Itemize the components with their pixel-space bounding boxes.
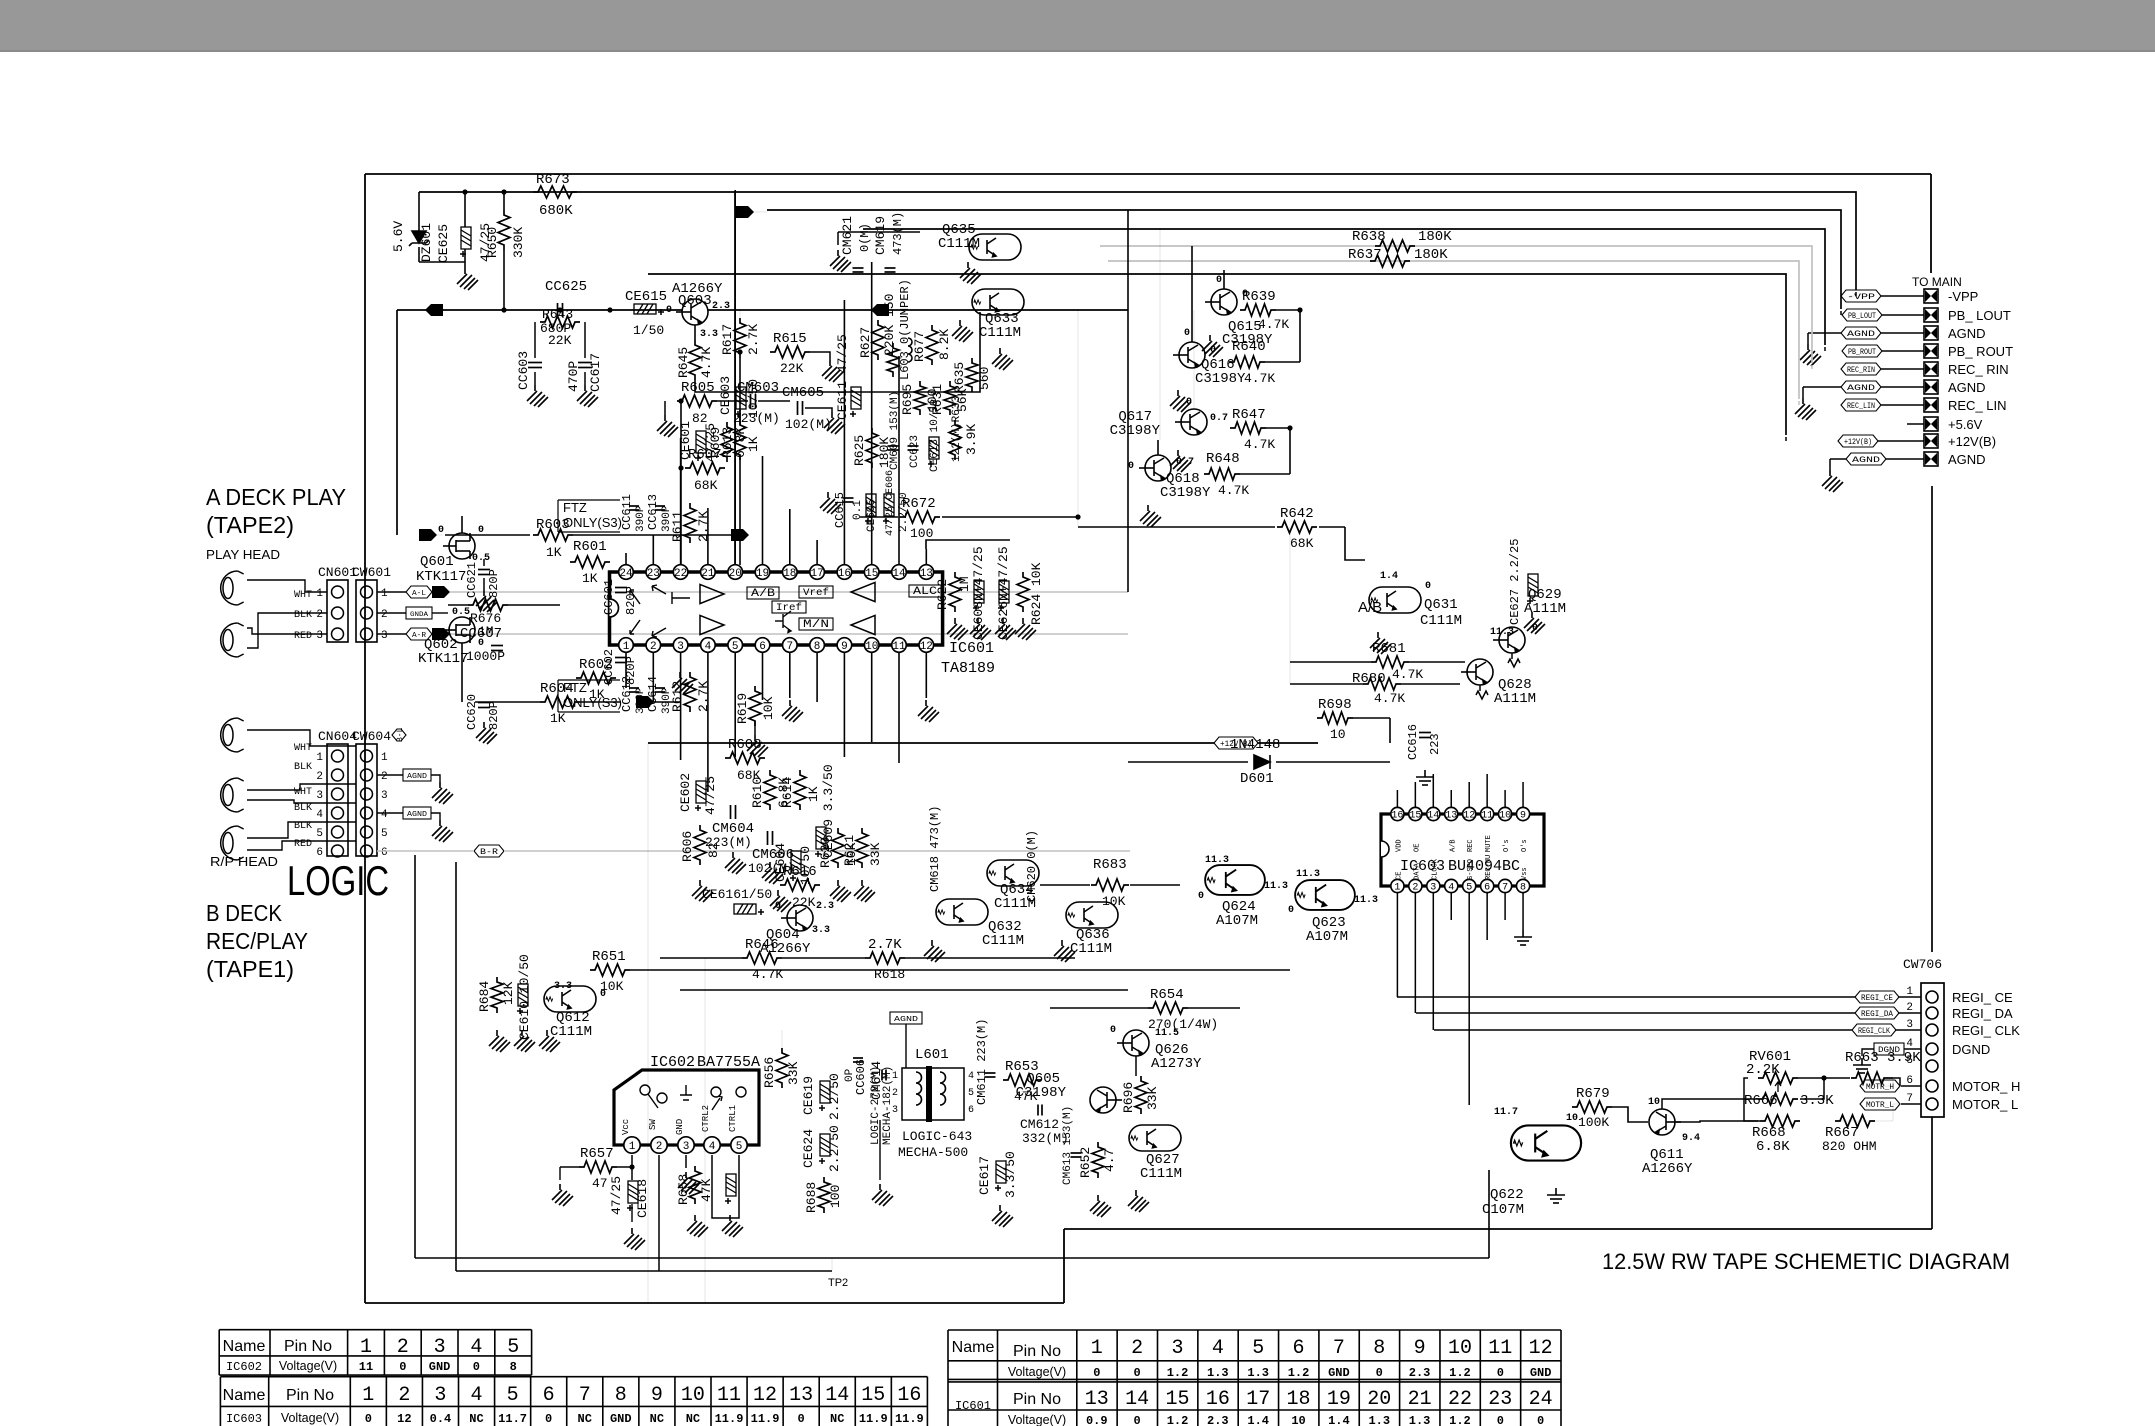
svg-text:R642: R642 (1280, 506, 1314, 522)
svg-text:Pin No: Pin No (1013, 1391, 1061, 1408)
svg-text:C111M: C111M (1420, 613, 1462, 629)
svg-text:BLK: BLK (294, 762, 312, 773)
svg-text:3.3K: 3.3K (1800, 1093, 1834, 1109)
svg-text:R616: R616 (783, 864, 817, 880)
svg-text:IC601: IC601 (949, 640, 994, 657)
svg-text:3: 3 (434, 1384, 446, 1407)
svg-text:11: 11 (1481, 811, 1493, 822)
svg-text:REGI_ CLK: REGI_ CLK (1952, 1023, 2020, 1038)
svg-text:R695: R695 (900, 384, 915, 415)
svg-text:1.4: 1.4 (1328, 1414, 1350, 1426)
svg-text:R657: R657 (580, 1146, 614, 1162)
svg-text:1M: 1M (957, 576, 972, 592)
svg-text:TA8189: TA8189 (941, 660, 995, 677)
svg-text:3: 3 (316, 790, 323, 802)
svg-text:CE6161/50: CE6161/50 (702, 887, 772, 902)
svg-text:R624 10K: R624 10K (1029, 562, 1044, 625)
svg-text:GND: GND (429, 1360, 451, 1374)
svg-text:R679: R679 (1576, 1086, 1610, 1102)
svg-text:33K: 33K (1145, 1086, 1160, 1110)
svg-text:AGND: AGND (1948, 452, 1986, 467)
svg-text:D601: D601 (1240, 771, 1274, 787)
svg-text:R615: R615 (773, 331, 807, 347)
svg-text:2: 2 (398, 1384, 410, 1407)
svg-text:R652: R652 (1078, 1147, 1093, 1178)
svg-text:0: 0 (1216, 275, 1222, 286)
svg-text:3.3: 3.3 (700, 329, 718, 340)
svg-text:1K: 1K (589, 687, 605, 702)
svg-text:BU4094BC: BU4094BC (1448, 858, 1520, 875)
svg-text:CC617: CC617 (588, 353, 603, 392)
svg-text:16: 16 (1206, 1388, 1230, 1411)
svg-text:0: 0 (1093, 1366, 1100, 1380)
svg-text:PLAY HEAD: PLAY HEAD (206, 547, 280, 562)
svg-text:CE613 10/50: CE613 10/50 (929, 399, 941, 472)
svg-text:1.3: 1.3 (1247, 1366, 1269, 1380)
svg-text:CE625: CE625 (436, 224, 451, 263)
svg-text:13: 13 (1445, 811, 1457, 822)
svg-text:11: 11 (892, 641, 906, 653)
svg-text:CC613: CC613 (646, 494, 660, 530)
svg-text:R603: R603 (536, 517, 570, 533)
svg-text:3: 3 (683, 1141, 690, 1153)
svg-text:MOTOR_ H: MOTOR_ H (1952, 1079, 2020, 1094)
svg-text:CE603: CE603 (718, 376, 733, 415)
svg-text:2.2/50: 2.2/50 (827, 1073, 842, 1120)
svg-text:2: 2 (650, 641, 657, 653)
svg-text:R673: R673 (536, 172, 570, 188)
svg-text:RED: RED (294, 839, 312, 850)
svg-text:19: 19 (1327, 1388, 1351, 1411)
svg-text:1.3: 1.3 (1368, 1414, 1390, 1426)
svg-text:4.7K: 4.7K (699, 347, 714, 378)
svg-text:1K: 1K (582, 571, 598, 586)
svg-text:C3198Y: C3198Y (1016, 1085, 1067, 1101)
svg-text:REC_LIN: REC_LIN (1847, 402, 1875, 411)
svg-text:2.3: 2.3 (1409, 1366, 1431, 1380)
svg-text:CC602: CC602 (602, 649, 616, 685)
svg-text:10: 10 (1330, 727, 1346, 742)
svg-text:2: 2 (381, 609, 388, 621)
svg-text:LOGIC-643: LOGIC-643 (902, 1129, 972, 1144)
svg-text:R677: R677 (912, 331, 927, 362)
svg-text:1: 1 (381, 588, 388, 600)
svg-text:IC603: IC603 (226, 1412, 262, 1426)
svg-text:11.3: 11.3 (1264, 881, 1288, 892)
svg-text:R621: R621 (842, 835, 857, 866)
svg-text:R608: R608 (728, 737, 762, 753)
svg-text:1.2: 1.2 (1288, 1366, 1310, 1380)
svg-text:7: 7 (1906, 1093, 1913, 1105)
svg-text:11: 11 (717, 1384, 741, 1407)
svg-text:REGI_CE: REGI_CE (1861, 994, 1893, 1003)
svg-text:21: 21 (701, 568, 715, 580)
svg-text:13: 13 (1085, 1388, 1109, 1411)
svg-text:Q631: Q631 (1424, 597, 1458, 613)
svg-text:NC: NC (686, 1412, 700, 1426)
svg-text:R681: R681 (1372, 641, 1406, 657)
svg-text:13: 13 (789, 1384, 813, 1407)
svg-text:CM620 0(M): CM620 0(M) (1025, 830, 1039, 902)
svg-text:CM611 223(M): CM611 223(M) (975, 1019, 989, 1105)
svg-text:4: 4 (316, 809, 323, 821)
svg-text:1: 1 (316, 588, 323, 600)
svg-text:11.7: 11.7 (498, 1412, 527, 1426)
svg-text:4: 4 (968, 1071, 974, 1082)
svg-text:1: 1 (360, 1336, 372, 1359)
svg-text:1: 1 (629, 1141, 636, 1153)
svg-text:R646: R646 (745, 937, 779, 953)
svg-text:3: 3 (316, 630, 323, 642)
svg-text:1K: 1K (550, 711, 566, 726)
svg-text:1: 1 (381, 752, 388, 764)
svg-text:Pin No: Pin No (1013, 1343, 1061, 1360)
svg-text:17: 17 (1246, 1388, 1270, 1411)
svg-text:2: 2 (1412, 883, 1418, 894)
svg-text:8: 8 (1520, 883, 1526, 894)
svg-text:9: 9 (1520, 811, 1526, 822)
svg-text:12: 12 (753, 1384, 777, 1407)
svg-text:0: 0 (1497, 1366, 1504, 1380)
svg-text:R617: R617 (720, 324, 735, 355)
svg-text:7: 7 (1502, 883, 1508, 894)
svg-text:1.2: 1.2 (1449, 1414, 1471, 1426)
svg-text:102(M): 102(M) (785, 417, 832, 432)
svg-text:AGND: AGND (894, 1016, 918, 1024)
svg-text:100: 100 (910, 526, 933, 541)
svg-text:3.3: 3.3 (554, 981, 572, 992)
svg-text:5: 5 (507, 1384, 519, 1407)
svg-text:223: 223 (1428, 733, 1442, 755)
svg-text:17: 17 (810, 568, 823, 580)
svg-text:TP2: TP2 (828, 1277, 848, 1289)
svg-text:10: 10 (1566, 1113, 1578, 1124)
svg-text:MOTOR_ L: MOTOR_ L (1952, 1097, 2018, 1112)
svg-text:CM619: CM619 (873, 216, 888, 255)
svg-text:R688: R688 (804, 1182, 819, 1213)
svg-text:(TAPE2): (TAPE2) (206, 512, 294, 538)
svg-text:10K: 10K (600, 979, 624, 994)
svg-text:0: 0 (775, 901, 781, 912)
svg-text:AGND: AGND (1948, 380, 1986, 395)
svg-text:4.7K: 4.7K (1258, 317, 1289, 332)
svg-text:14: 14 (1427, 811, 1439, 822)
svg-text:6: 6 (543, 1384, 555, 1407)
svg-text:2.3: 2.3 (816, 901, 834, 912)
svg-text:Voltage(V): Voltage(V) (1008, 1365, 1066, 1379)
svg-text:CE615: CE615 (625, 289, 667, 305)
svg-text:0: 0 (1497, 1414, 1504, 1426)
svg-text:CC603: CC603 (516, 351, 531, 390)
svg-text:O's: O's (1521, 839, 1529, 852)
svg-text:2: 2 (316, 771, 323, 783)
svg-text:15: 15 (861, 1384, 885, 1407)
svg-text:68K: 68K (694, 478, 718, 493)
svg-text:CC601: CC601 (602, 579, 616, 615)
svg-text:REC_ LIN: REC_ LIN (1948, 398, 2007, 413)
svg-text:2.2/50: 2.2/50 (827, 1125, 842, 1172)
svg-text:12: 12 (1529, 1337, 1553, 1360)
svg-text:R683: R683 (1093, 857, 1127, 873)
svg-text:820 OHM: 820 OHM (1822, 1139, 1877, 1154)
svg-text:R658: R658 (676, 1174, 691, 1205)
svg-text:L601: L601 (915, 1047, 949, 1063)
svg-text:R614: R614 (780, 777, 795, 808)
svg-text:CM621: CM621 (840, 216, 855, 255)
svg-text:10: 10 (1648, 1097, 1660, 1108)
svg-text:R606: R606 (680, 831, 695, 862)
svg-text:R625: R625 (852, 435, 867, 466)
svg-text:AGND: AGND (407, 773, 427, 781)
svg-text:CE624: CE624 (801, 1129, 816, 1168)
svg-text:Q622: Q622 (1490, 1187, 1524, 1203)
svg-text:4.7: 4.7 (1102, 1149, 1117, 1172)
svg-text:1: 1 (623, 641, 630, 653)
svg-text:Vref: Vref (803, 587, 829, 599)
svg-text:CC621: CC621 (465, 562, 479, 598)
svg-text:2.7K: 2.7K (868, 937, 902, 953)
svg-text:18: 18 (1287, 1388, 1311, 1411)
svg-text:10: 10 (865, 641, 878, 653)
svg-text:4: 4 (470, 1336, 482, 1359)
svg-text:680K: 680K (539, 203, 573, 219)
svg-text:CM618 473(M): CM618 473(M) (928, 806, 942, 892)
svg-text:2: 2 (1906, 1002, 1913, 1014)
svg-text:PB_ ROUT: PB_ ROUT (1948, 344, 2013, 359)
svg-text:C3198Y: C3198Y (1195, 371, 1246, 387)
svg-text:CC625: CC625 (545, 279, 587, 295)
svg-text:1.4: 1.4 (1247, 1414, 1269, 1426)
svg-text:Voltage(V): Voltage(V) (279, 1359, 337, 1373)
svg-text:A111M: A111M (1494, 691, 1536, 707)
svg-text:6: 6 (316, 847, 323, 859)
svg-text:SW: SW (648, 1119, 658, 1130)
svg-text:CE610 10/50: CE610 10/50 (517, 954, 532, 1040)
svg-text:4: 4 (1212, 1337, 1224, 1360)
svg-text:+12V(B): +12V(B) (1844, 438, 1872, 447)
svg-text:10K: 10K (761, 696, 776, 720)
svg-text:REC/PLAY: REC/PLAY (206, 928, 308, 954)
svg-text:100K: 100K (1578, 1115, 1609, 1130)
svg-text:BLK: BLK (294, 821, 312, 832)
svg-text:R672: R672 (902, 496, 936, 512)
svg-text:0.5: 0.5 (452, 607, 470, 618)
svg-text:100: 100 (828, 1185, 843, 1208)
svg-text:KTK117: KTK117 (418, 651, 468, 667)
svg-text:R663 3.9K: R663 3.9K (1845, 1050, 1921, 1066)
svg-text:1.4: 1.4 (1380, 571, 1398, 582)
svg-text:Vcc: Vcc (621, 1119, 631, 1135)
svg-text:C111M: C111M (979, 325, 1021, 341)
svg-text:2: 2 (381, 771, 388, 783)
svg-text:11.3: 11.3 (1354, 895, 1378, 906)
svg-text:CE611 47/25: CE611 47/25 (835, 334, 850, 420)
svg-text:14: 14 (825, 1384, 849, 1407)
svg-text:22: 22 (674, 568, 687, 580)
svg-text:AGND: AGND (1847, 330, 1875, 339)
svg-text:R656: R656 (762, 1057, 777, 1088)
svg-text:DGND: DGND (1952, 1042, 1990, 1057)
svg-text:Q603: Q603 (678, 293, 712, 309)
svg-text:C111M: C111M (938, 236, 980, 252)
svg-text:1K: 1K (806, 786, 821, 802)
svg-text:22K: 22K (792, 895, 816, 910)
svg-text:R638: R638 (1352, 229, 1386, 245)
svg-text:0: 0 (1288, 905, 1294, 916)
svg-text:Vss: Vss (1521, 867, 1529, 880)
svg-text:NC: NC (469, 1412, 483, 1426)
svg-text:Pin No: Pin No (284, 1338, 332, 1355)
svg-text:4: 4 (1448, 883, 1454, 894)
svg-text:CC623: CC623 (909, 435, 921, 468)
svg-text:IC601: IC601 (955, 1399, 991, 1413)
svg-text:3: 3 (677, 641, 684, 653)
svg-text:6: 6 (968, 1105, 974, 1116)
svg-text:REGI_ CE: REGI_ CE (1952, 990, 2013, 1005)
svg-text:11.9: 11.9 (715, 1412, 744, 1426)
svg-text:4: 4 (381, 809, 388, 821)
svg-text:FTZ: FTZ (563, 500, 587, 515)
svg-text:473(M): 473(M) (891, 212, 905, 255)
svg-text:C3198Y: C3198Y (1160, 485, 1211, 501)
svg-text:4.7K: 4.7K (1244, 371, 1275, 386)
svg-text:GND: GND (675, 1119, 685, 1135)
svg-text:8: 8 (814, 641, 821, 653)
svg-text:9: 9 (841, 641, 848, 653)
svg-text:33K: 33K (868, 842, 883, 866)
svg-text:68K: 68K (1290, 536, 1314, 551)
svg-text:R627: R627 (858, 327, 873, 358)
svg-text:CM605: CM605 (782, 385, 824, 401)
svg-text:R601: R601 (573, 539, 607, 555)
svg-text:16: 16 (897, 1384, 921, 1407)
svg-text:11.9: 11.9 (751, 1412, 780, 1426)
svg-text:R654: R654 (1150, 987, 1184, 1003)
svg-text:GND: GND (610, 1412, 632, 1426)
svg-text:B-L: B-L (396, 727, 405, 742)
svg-text:Name: Name (223, 1338, 266, 1355)
svg-text:WHT: WHT (294, 787, 312, 798)
svg-text:Name: Name (952, 1339, 995, 1356)
svg-text:15: 15 (865, 568, 878, 580)
svg-text:MOTR_H: MOTR_H (1866, 1083, 1894, 1092)
svg-text:5: 5 (381, 828, 388, 840)
svg-text:3: 3 (381, 790, 388, 802)
svg-text:+12V(B): +12V(B) (1948, 434, 1996, 449)
svg-text:IC602: IC602 (650, 1054, 695, 1071)
svg-text:8: 8 (1373, 1337, 1385, 1360)
svg-text:CE: CE (1395, 872, 1403, 880)
svg-text:0.9: 0.9 (1086, 1414, 1108, 1426)
svg-text:12: 12 (920, 641, 933, 653)
svg-text:B-R: B-R (480, 848, 498, 857)
svg-text:15: 15 (1165, 1388, 1189, 1411)
svg-text:CC620: CC620 (465, 694, 479, 730)
svg-text:A/B: A/B (1358, 599, 1382, 616)
svg-text:24: 24 (619, 568, 633, 580)
svg-text:C111M: C111M (982, 933, 1024, 949)
svg-text:16: 16 (838, 568, 851, 580)
svg-text:6: 6 (1293, 1337, 1305, 1360)
svg-text:1.2: 1.2 (1167, 1366, 1189, 1380)
svg-text:2: 2 (316, 609, 323, 621)
svg-text:11.5: 11.5 (1155, 1028, 1179, 1039)
svg-text:33K: 33K (786, 1061, 801, 1085)
svg-text:13: 13 (920, 568, 933, 580)
svg-text:AGND: AGND (1948, 326, 1986, 341)
svg-text:6: 6 (1906, 1075, 1913, 1087)
svg-text:122(M)R633: 122(M)R633 (951, 396, 963, 462)
svg-text:2: 2 (656, 1141, 663, 1153)
svg-text:0: 0 (1425, 581, 1431, 592)
svg-text:1.3: 1.3 (1409, 1414, 1431, 1426)
svg-text:11: 11 (359, 1360, 373, 1374)
svg-text:19: 19 (756, 568, 769, 580)
svg-text:ONLY(S3): ONLY(S3) (563, 515, 622, 530)
svg-text:3: 3 (1906, 1019, 1913, 1031)
svg-text:47: 47 (592, 1176, 608, 1191)
svg-text:1N4148: 1N4148 (1230, 737, 1280, 753)
svg-text:1/50: 1/50 (633, 323, 664, 338)
svg-text:0(M): 0(M) (858, 223, 872, 252)
svg-text:R604: R604 (540, 681, 574, 697)
svg-text:A1266Y: A1266Y (1642, 1161, 1693, 1177)
svg-text:1.3: 1.3 (1207, 1366, 1229, 1380)
svg-text:3.9K: 3.9K (964, 424, 979, 455)
svg-text:TO MAIN: TO MAIN (1912, 275, 1962, 289)
svg-text:47/25: 47/25 (609, 1176, 624, 1215)
svg-text:PB_ROUT: PB_ROUT (1848, 348, 1876, 357)
svg-text:23: 23 (1488, 1388, 1512, 1411)
svg-text:CE605: CE605 (866, 499, 878, 532)
svg-text:CW601: CW601 (352, 565, 391, 580)
svg-text:OE: OE (1413, 844, 1421, 852)
svg-text:4.7K: 4.7K (1244, 437, 1275, 452)
svg-text:0: 0 (1134, 1414, 1141, 1426)
svg-text:A DECK PLAY: A DECK PLAY (206, 484, 346, 510)
svg-text:R639: R639 (1242, 289, 1276, 305)
svg-text:CE618: CE618 (635, 1179, 650, 1218)
svg-text:0: 0 (1376, 1366, 1383, 1380)
svg-text:10: 10 (1291, 1414, 1305, 1426)
svg-text:CE617: CE617 (977, 1156, 992, 1195)
svg-text:2: 2 (1131, 1337, 1143, 1360)
svg-text:AGND: AGND (1852, 456, 1880, 465)
svg-text:20: 20 (729, 568, 742, 580)
svg-text:CLOCK: CLOCK (1431, 858, 1439, 880)
svg-text:WHT: WHT (294, 590, 312, 601)
svg-text:3: 3 (1430, 883, 1436, 894)
svg-text:NC: NC (578, 1412, 592, 1426)
svg-text:1.2: 1.2 (1167, 1414, 1189, 1426)
svg-text:0: 0 (365, 1412, 372, 1426)
svg-text:223(M): 223(M) (733, 411, 780, 426)
svg-text:6: 6 (759, 641, 766, 653)
svg-text:CW604: CW604 (352, 729, 391, 744)
svg-text:9: 9 (651, 1384, 663, 1407)
svg-text:MECHA-500: MECHA-500 (898, 1145, 968, 1160)
svg-text:6: 6 (1484, 883, 1490, 894)
svg-text:0: 0 (1186, 397, 1192, 408)
svg-text:R651: R651 (592, 949, 626, 965)
svg-text:BA7755A: BA7755A (697, 1054, 760, 1071)
svg-text:1K: 1K (546, 545, 562, 560)
svg-text:180K: 180K (1414, 247, 1448, 263)
svg-text:11: 11 (1488, 1337, 1512, 1360)
svg-text:22K: 22K (548, 333, 572, 348)
svg-text:0: 0 (798, 1412, 805, 1426)
svg-text:5: 5 (1466, 883, 1472, 894)
